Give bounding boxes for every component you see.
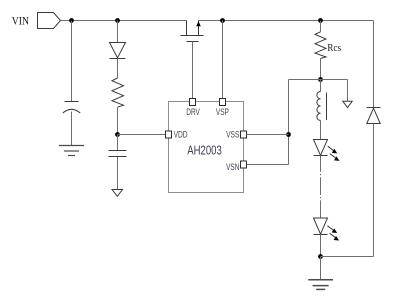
svg-text:Rcs: Rcs xyxy=(327,42,341,54)
capacitor C2 xyxy=(109,151,127,157)
wire mid xyxy=(320,178,322,194)
wire to small gnd xyxy=(347,80,349,102)
ground triangle GND2 xyxy=(112,190,123,197)
D4 arrow 2 xyxy=(330,233,337,238)
wire LED- to right rail xyxy=(321,256,374,258)
ground GND1 xyxy=(59,146,84,156)
LED D3 xyxy=(314,140,340,161)
node junction at x=117.5 xyxy=(115,18,120,23)
svg-text:VSP: VSP xyxy=(216,107,229,117)
U1 pin VSP xyxy=(220,99,226,106)
svg-text:AH2003: AH2003 xyxy=(187,143,222,157)
wire node to inductor xyxy=(320,80,322,92)
node junction VDD net xyxy=(115,132,120,137)
wire dotted 1 xyxy=(320,171,322,179)
ground GND4 xyxy=(308,280,333,290)
wire VSP drop xyxy=(222,21,224,99)
Q1 drain drop xyxy=(186,21,188,36)
wire VSS pin to node xyxy=(247,134,289,136)
wire LED2 to gnd node xyxy=(320,235,322,257)
wire VSS/VSN riser xyxy=(288,80,290,165)
wire C2 to ground xyxy=(117,157,119,190)
resistor R1 xyxy=(112,78,124,107)
node junction at x=320.5 xyxy=(318,18,323,23)
U1 pin VDD xyxy=(166,131,172,138)
node junction at x=222.5 xyxy=(220,18,225,23)
resistor Rcs xyxy=(315,32,326,59)
L1 core bar xyxy=(326,93,328,121)
wire diode branch drop xyxy=(117,21,119,43)
diode D2 freewheel xyxy=(367,108,381,124)
node junction at x=71 xyxy=(69,18,74,23)
wire Rcs drop xyxy=(320,21,322,32)
wire R1 to node xyxy=(117,107,119,134)
Q1 channel bar xyxy=(181,35,204,37)
wire node to C2 xyxy=(117,135,119,151)
wire Rcs to node xyxy=(320,59,322,80)
svg-text:VSS: VSS xyxy=(226,130,239,140)
wire input cap drop xyxy=(71,21,73,102)
LED D4 xyxy=(314,218,340,241)
wire gate to DRV pin xyxy=(192,42,194,99)
transistor Q1 MOSFET xyxy=(181,21,204,42)
wire CS node horizontal xyxy=(289,79,348,81)
U1 pin DRV xyxy=(190,99,196,106)
U1 pin VSN xyxy=(241,161,247,168)
wire node to VDD pin xyxy=(118,134,166,136)
svg-text:VIN: VIN xyxy=(12,14,29,28)
U1 pin VSS xyxy=(241,131,247,138)
wire LED1 down xyxy=(320,156,322,171)
svg-text:DRV: DRV xyxy=(186,107,200,117)
wire to LED2 xyxy=(320,202,322,218)
D3 arrow 2 xyxy=(330,154,337,159)
wire VSN pin run xyxy=(247,164,289,166)
Q1 source line with arrow xyxy=(198,21,200,36)
wire top rail right xyxy=(199,20,374,22)
Q1 gate plate xyxy=(187,41,199,43)
ground triangle GND3 xyxy=(343,101,352,108)
node junction LED- xyxy=(318,254,323,259)
svg-text:VDD: VDD xyxy=(174,130,188,140)
node junction CS xyxy=(318,77,323,82)
diode D1 xyxy=(110,43,126,59)
op-amp U1 AH2003 body xyxy=(169,102,244,193)
wire right rail top xyxy=(373,21,375,108)
VIN port connector xyxy=(38,13,61,29)
wire C1 to ground xyxy=(71,112,73,146)
svg-text:VSN: VSN xyxy=(226,162,239,172)
wire dotted 2 xyxy=(320,194,322,202)
wire L1 to LED1 xyxy=(320,121,322,140)
node junction VSS xyxy=(286,132,291,137)
D4 arrow 1 xyxy=(327,226,334,231)
wire top rail left xyxy=(61,20,187,22)
capacitor C1 polarized xyxy=(63,102,80,114)
wire right rail bottom xyxy=(373,124,375,257)
inductor L1 xyxy=(317,92,327,121)
D3 arrow 1 xyxy=(328,146,335,151)
wire D1 to R1 xyxy=(117,59,119,79)
wire LED- to ground xyxy=(320,257,322,280)
